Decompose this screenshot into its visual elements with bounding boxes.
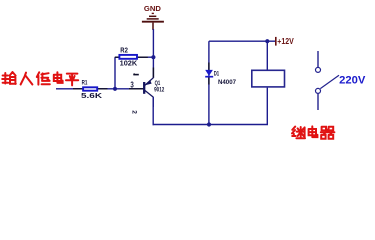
power +12V	[276, 37, 294, 46]
svg-text:GND: GND	[144, 6, 161, 13]
label 输入低电平 (drawn strokes)	[2, 72, 78, 85]
svg-text:9012: 9012	[154, 87, 165, 93]
wire R2 pin leads (dark)	[115, 56, 119, 58]
junction node base/R2	[113, 87, 117, 91]
wire collector down	[152, 97, 154, 125]
wire top run	[209, 40, 276, 42]
wire bottom run	[153, 124, 269, 126]
pin 1	[133, 74, 139, 75]
wire transistor pin leads (dark)	[152, 68, 154, 78]
wire base run	[56, 88, 144, 90]
svg-text:+12V: +12V	[277, 37, 294, 46]
transistor Q1 9012	[144, 78, 165, 97]
svg-text:R1: R1	[82, 79, 88, 86]
入	[21, 73, 33, 85]
wire relay top lead	[266, 41, 268, 70]
resistor R2	[119, 47, 137, 67]
pin 2	[131, 110, 138, 114]
wire switch bottom lead	[317, 94, 319, 110]
resistor R1	[81, 79, 103, 100]
diode D1 N4007	[205, 70, 236, 86]
switch contact bottom	[316, 88, 321, 93]
svg-text:5.6K: 5.6K	[81, 91, 103, 100]
switch contact top	[316, 67, 321, 72]
低	[37, 72, 39, 84]
输	[2, 73, 8, 84]
svg-text:220V: 220V	[339, 75, 366, 87]
wire switch top lead	[317, 51, 319, 67]
svg-text:3: 3	[130, 81, 134, 90]
svg-text:Q1: Q1	[155, 81, 161, 87]
junction node top/relay	[265, 39, 269, 43]
junction node bottom/diode	[207, 122, 211, 126]
wire R2 branch vertical	[114, 57, 116, 89]
ground GND	[142, 6, 164, 30]
器	[322, 127, 334, 131]
svg-text:R2: R2	[120, 47, 128, 54]
switch blade	[320, 75, 339, 88]
junction node R2/main vertical	[151, 55, 155, 59]
电	[309, 126, 318, 137]
svg-text:2: 2	[131, 110, 138, 114]
label 继电器 (drawn strokes)	[292, 126, 334, 138]
继	[292, 127, 296, 136]
svg-text:N4007: N4007	[218, 80, 237, 86]
电	[54, 72, 63, 83]
wire diode pin leads (dark)	[208, 63, 210, 70]
wire diode vertical	[208, 41, 210, 124]
wire main vertical GND to transistor	[152, 29, 154, 78]
平	[66, 74, 78, 86]
wire R2 top run	[115, 56, 153, 58]
svg-text:D1: D1	[214, 72, 220, 78]
wire R1 pin leads (dark)	[73, 88, 82, 90]
relay coil	[252, 70, 285, 87]
svg-text:102K: 102K	[120, 59, 138, 68]
wire relay bottom lead	[266, 88, 268, 125]
